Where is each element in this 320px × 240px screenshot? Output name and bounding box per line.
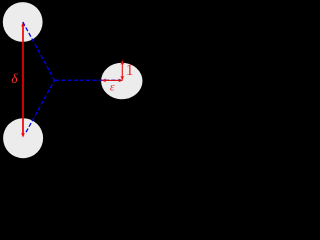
arrow delta (double-headed between left disk centers) bbox=[21, 22, 25, 138]
svg-text:1: 1 bbox=[126, 62, 134, 79]
wire dashed: top disk center to junction bbox=[23, 22, 55, 80]
wire dashed: bottom disk center to junction bbox=[26, 80, 55, 132]
svg-text:δ: δ bbox=[11, 71, 18, 86]
disk top-left bbox=[3, 2, 43, 42]
svg-text:ε: ε bbox=[110, 79, 115, 93]
wire dashed: right disk center to junction bbox=[55, 79, 122, 81]
arrow radius 1 (vertical double-headed in right disk) bbox=[120, 60, 124, 81]
disk right bbox=[101, 63, 142, 99]
disk bottom-left bbox=[3, 118, 43, 158]
arrow epsilon (horizontal double-headed in right disk) bbox=[101, 79, 123, 83]
